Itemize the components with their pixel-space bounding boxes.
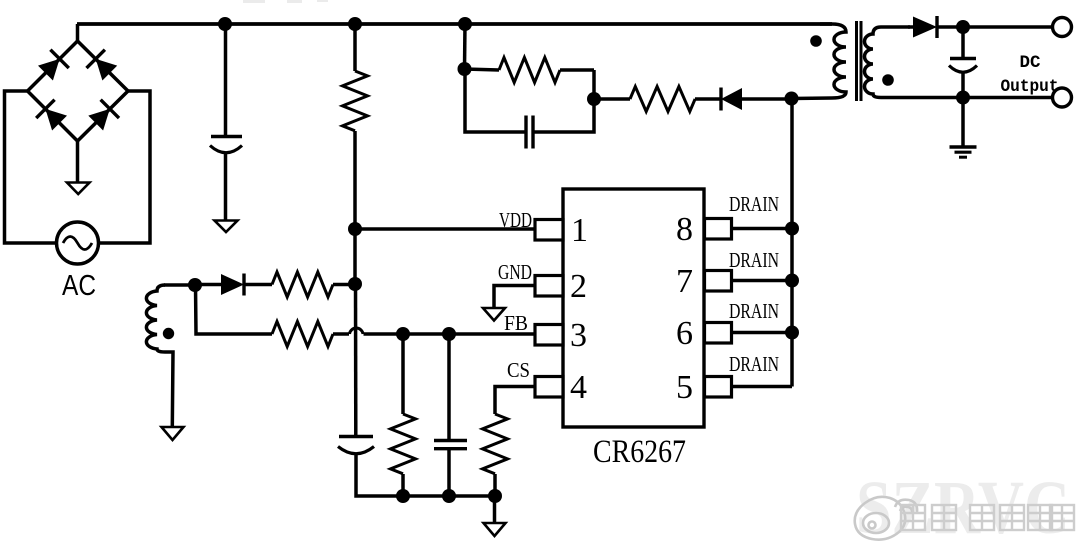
ground (aux winding) xyxy=(162,427,184,440)
op-amp/IC U1 CR6267 body xyxy=(563,189,704,427)
wire C4 to bottom rail xyxy=(447,449,451,496)
wire hop to FB pin xyxy=(364,332,537,336)
bridge rectifier BR1 diamond xyxy=(28,41,129,141)
ground (primary common) xyxy=(484,523,506,536)
node VDD junction xyxy=(348,222,362,236)
wire snubber to R3 xyxy=(594,97,630,101)
capacitor C4 FB xyxy=(434,441,467,449)
node drain bus pin7 xyxy=(785,274,799,288)
node rail/C4 junction xyxy=(442,489,456,503)
node snubber right xyxy=(587,92,601,106)
wire drain bus xyxy=(790,99,794,387)
wire R6 to bottom rail xyxy=(401,474,405,496)
wire output ground stem xyxy=(961,98,965,147)
wire rail to snubber xyxy=(463,24,467,69)
svg-text:5: 5 xyxy=(676,369,693,406)
transformer secondary polarity dot xyxy=(882,74,894,86)
resistor R5 FB xyxy=(272,322,333,347)
ground (C1) xyxy=(215,221,238,233)
capacitor C1 bulk electrolytic xyxy=(210,137,242,153)
U1 pin 7 box (DRAIN) xyxy=(705,271,732,292)
node snubber top junction xyxy=(458,17,472,31)
watermark weibo logo xyxy=(855,497,917,540)
resistor R4 VDD charge xyxy=(272,272,333,297)
node drain bus pin6 xyxy=(785,326,799,340)
wire GND pin to ground xyxy=(494,286,537,309)
transformer T1 secondary winding xyxy=(865,27,1053,98)
transformer primary polarity dot xyxy=(810,35,822,47)
wire bridge bottom to ground xyxy=(76,141,80,183)
node drain-bus / primary junction xyxy=(785,92,799,106)
terminal output - xyxy=(1053,88,1072,107)
bridge diode D-a (left corner to +) xyxy=(38,50,69,81)
node FB/C4 junction xyxy=(442,327,456,341)
diode D1 aux rectifier xyxy=(221,274,244,296)
wire bottom rail to ground xyxy=(493,496,497,523)
wire D3 to output terminal xyxy=(937,25,1053,29)
wire bridge top corner to rail xyxy=(76,24,80,41)
svg-text:AC: AC xyxy=(62,270,96,302)
svg-text:Output: Output xyxy=(1001,77,1059,97)
wire rail to C1 xyxy=(224,24,228,136)
node rail/R6 junction xyxy=(396,489,410,503)
wire aux junction down to FB line xyxy=(196,285,273,334)
wire FB to C4 xyxy=(447,334,451,440)
wire aux node down to C3 (crosses FB line) xyxy=(354,284,358,436)
diode D3 output rectifier xyxy=(913,16,937,38)
node bulk-cap junction xyxy=(218,17,232,31)
node snubber left xyxy=(458,62,472,76)
wire pin6 to drain bus xyxy=(731,331,793,335)
wire rail to R1 xyxy=(353,24,357,71)
wire D2 to drain bus xyxy=(742,97,791,101)
transformer T1 primary winding xyxy=(792,24,847,99)
node output positive xyxy=(956,20,970,34)
svg-text:4: 4 xyxy=(570,369,587,406)
resistor R2 snubber xyxy=(499,58,560,83)
node aux-charge junction xyxy=(348,277,362,291)
wire R7 to bottom rail xyxy=(493,474,497,496)
terminal output + xyxy=(1053,18,1072,37)
capacitor C5 output electrolytic xyxy=(949,59,977,73)
wire pin8 to drain bus xyxy=(731,227,793,231)
node R1 top junction xyxy=(348,17,362,31)
wire C5 to bottom output rail xyxy=(961,72,965,98)
ground (bridge) xyxy=(67,183,90,195)
wire output node to C5 xyxy=(961,27,965,58)
wire R3 to D2 xyxy=(695,97,721,101)
svg-text:6: 6 xyxy=(676,315,693,352)
U1 pin 4 box (CS) xyxy=(535,377,563,398)
svg-text:DRAIN: DRAIN xyxy=(729,192,779,216)
watermark chinese caption xyxy=(901,505,1074,530)
wire AC loop right xyxy=(99,91,151,243)
wire aux top to junction xyxy=(164,283,195,287)
wire pin5 to drain bus xyxy=(731,385,793,389)
svg-text:1: 1 xyxy=(571,212,588,249)
svg-text:FB: FB xyxy=(504,311,528,335)
ground (output, earth symbol) xyxy=(950,147,977,157)
resistor R1 startup xyxy=(343,71,368,131)
svg-text:3: 3 xyxy=(570,317,587,354)
svg-text:2: 2 xyxy=(570,268,587,305)
wire CS pin lead xyxy=(495,387,537,415)
bridge diode D-b (right corner to +) xyxy=(87,50,118,81)
svg-text:DRAIN: DRAIN xyxy=(729,352,779,376)
node output negative xyxy=(956,91,970,105)
capacitor C2 snubber xyxy=(526,116,533,149)
wire R4 to VDD rail xyxy=(333,283,355,287)
U1 pin 1 box (VDD) xyxy=(535,220,563,241)
U1 pin 6 box (DRAIN) xyxy=(705,323,732,344)
wire C1 to ground xyxy=(224,152,228,221)
wire C3 to bottom rail xyxy=(356,453,495,496)
node drain bus pin8 xyxy=(785,222,799,236)
cropped text remnant (top edge) xyxy=(243,0,328,3)
wire FB to R6 xyxy=(401,334,405,414)
bridge diode D-d (- to right corner) xyxy=(88,100,119,131)
wire secondary top to D3 xyxy=(908,25,913,29)
svg-text:CR6267: CR6267 xyxy=(593,434,686,470)
U1 pin 5 box (DRAIN) xyxy=(705,377,732,398)
U1 pin 3 box (FB) xyxy=(535,325,563,346)
resistor R7 CS sense xyxy=(483,414,508,474)
capacitor C3 VDD electrolytic xyxy=(338,437,374,454)
transformer core xyxy=(857,21,862,101)
svg-text:8: 8 xyxy=(676,211,693,248)
wire pin7 to drain bus xyxy=(731,279,793,283)
svg-text:GND: GND xyxy=(498,260,532,284)
svg-text:DRAIN: DRAIN xyxy=(729,299,779,323)
svg-text:CS: CS xyxy=(507,358,530,382)
bridge diode D-c (- to left corner) xyxy=(36,100,67,131)
resistor R6 FB lower xyxy=(391,414,416,474)
wire top positive rail xyxy=(77,22,832,26)
wire aux junction to D1 xyxy=(195,283,221,287)
resistor R3 clamp series xyxy=(630,87,695,112)
wire R1 to VDD node xyxy=(353,131,357,229)
diode D2 clamp xyxy=(721,88,742,111)
inductor L1 aux winding xyxy=(146,285,173,427)
svg-text:DC: DC xyxy=(1020,53,1041,73)
svg-text:7: 7 xyxy=(676,263,693,300)
svg-text:DRAIN: DRAIN xyxy=(729,248,779,272)
U1 pin 8 box (DRAIN) xyxy=(705,219,732,240)
wire snubber loop left+bottom xyxy=(465,69,594,132)
AC source sine symbol xyxy=(63,237,92,250)
node aux junction xyxy=(188,278,202,292)
wire VDD node down to aux node xyxy=(353,229,357,284)
node FB/R6 junction xyxy=(396,327,410,341)
wire VDD pin to node xyxy=(355,227,537,231)
AC source V1 circle xyxy=(57,222,99,264)
U1 pin 2 box (GND) xyxy=(535,276,563,297)
node rail/R7 junction xyxy=(488,489,502,503)
wire AC loop left xyxy=(5,91,57,243)
wire FB hop-over crossing xyxy=(350,328,364,334)
aux winding polarity dot xyxy=(163,328,174,339)
wire snubber top lead xyxy=(465,69,595,70)
ground (GND pin) xyxy=(483,308,505,321)
wire R5 to hop xyxy=(333,332,349,336)
wire D1 to R4 xyxy=(244,283,272,287)
